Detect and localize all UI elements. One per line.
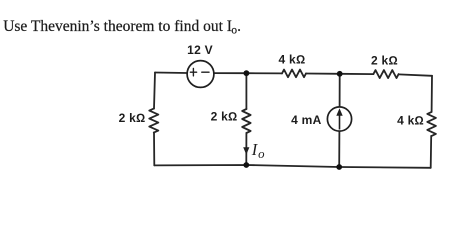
svg-text:12 V: 12 V <box>187 43 213 57</box>
svg-text:Io: Io <box>251 140 265 161</box>
svg-text:4 mA: 4 mA <box>291 113 321 127</box>
svg-text:4 kΩ: 4 kΩ <box>279 53 306 67</box>
svg-text:2 kΩ: 2 kΩ <box>211 110 238 124</box>
svg-text:2 kΩ: 2 kΩ <box>371 53 398 67</box>
svg-text:2 kΩ: 2 kΩ <box>119 111 146 125</box>
svg-text:Use Thevenin’s theorem to find: Use Thevenin’s theorem to find out Io. <box>3 18 241 36</box>
svg-text:4 kΩ: 4 kΩ <box>397 113 424 127</box>
